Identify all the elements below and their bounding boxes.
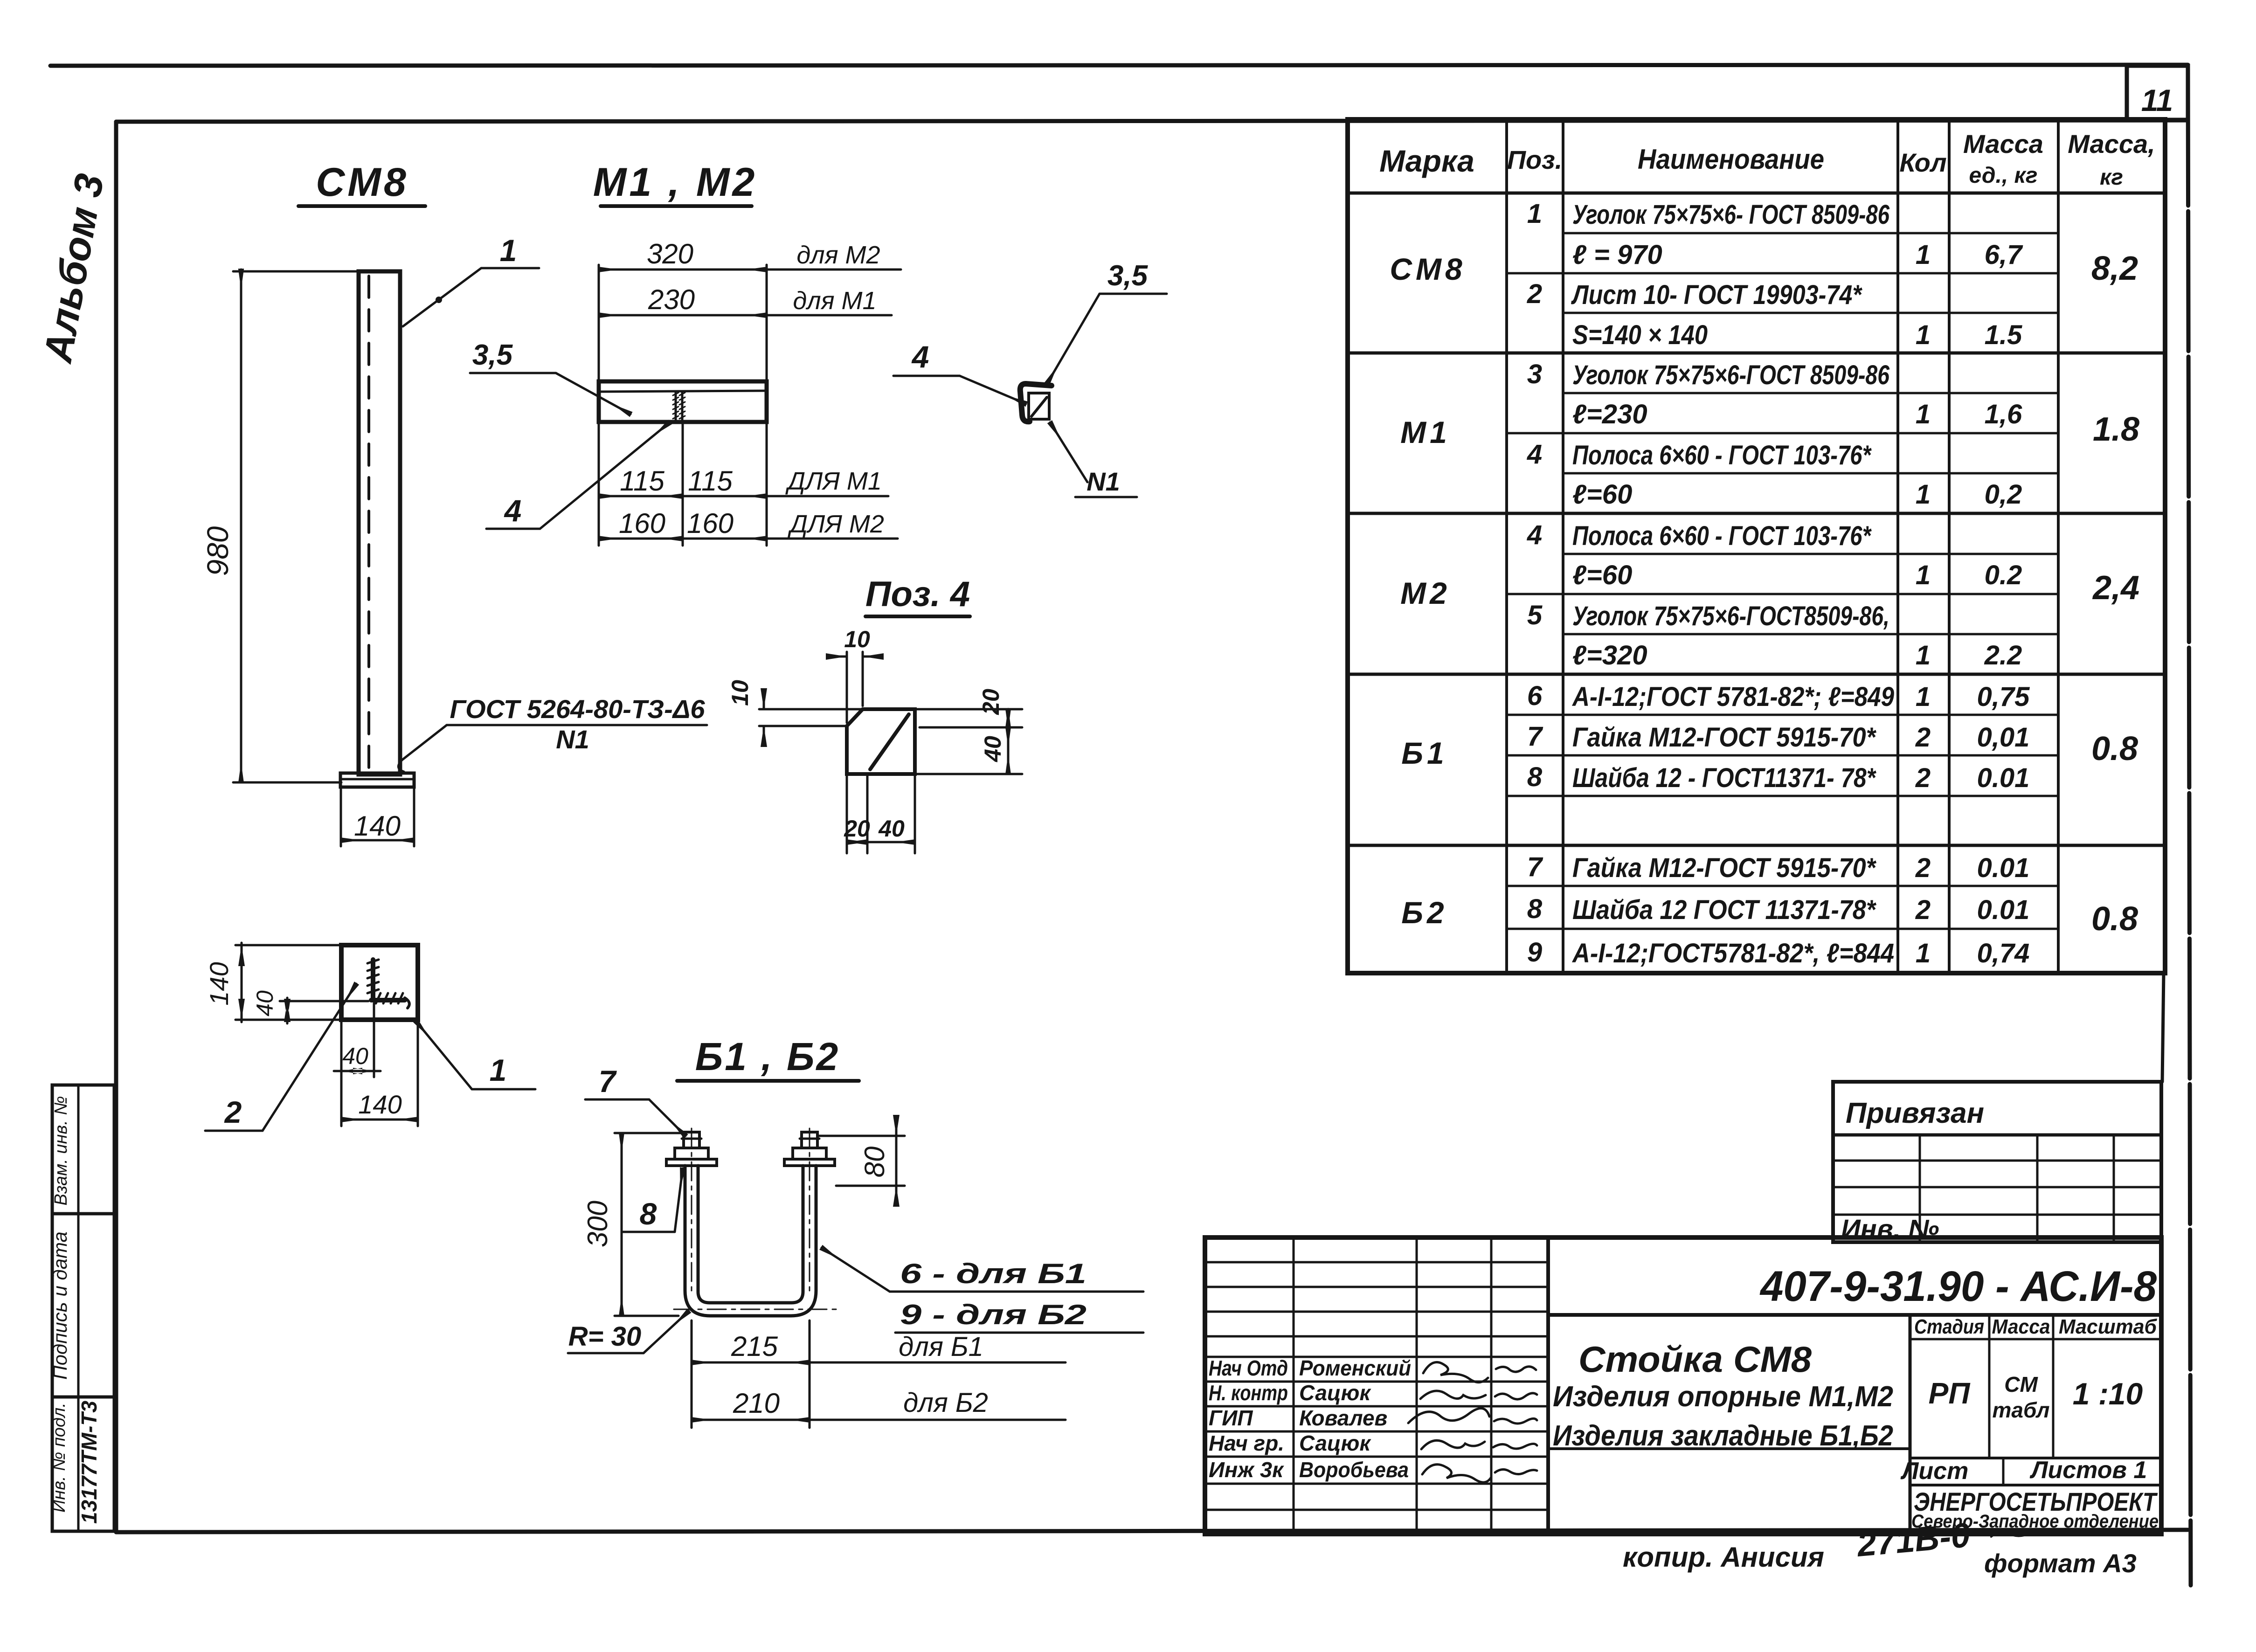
svg-text:1: 1 bbox=[1527, 199, 1542, 229]
svg-text:20: 20 bbox=[978, 689, 1004, 715]
svg-text:6,7: 6,7 bbox=[1985, 240, 2023, 270]
svg-text:2: 2 bbox=[1527, 279, 1542, 309]
svg-text:Стадия: Стадия bbox=[1914, 1315, 1984, 1338]
u-bottom centerline bbox=[674, 1309, 839, 1310]
svg-text:2: 2 bbox=[1915, 895, 1931, 925]
svg-text:4: 4 bbox=[1527, 520, 1542, 550]
title CM8 underline bbox=[298, 204, 425, 208]
label 3,5 detail leader bbox=[1047, 294, 1100, 383]
svg-text:кг: кг bbox=[2100, 165, 2123, 190]
row 4 s140 bbox=[1572, 320, 2022, 350]
sig nach otd signature bbox=[1423, 1362, 1488, 1382]
svg-text:Масса: Масса bbox=[1992, 1315, 2050, 1338]
leader label 1 dot bbox=[436, 297, 442, 303]
svg-text:3: 3 bbox=[1527, 359, 1542, 389]
svg-text:Стойка СМ8: Стойка СМ8 bbox=[1578, 1339, 1812, 1380]
drawing frame top border bbox=[116, 120, 2188, 122]
svg-text:5: 5 bbox=[1527, 600, 1543, 630]
plate angle outline bbox=[599, 381, 767, 422]
label N1 underline bbox=[1075, 496, 1137, 498]
svg-text:СМ: СМ bbox=[2004, 1372, 2038, 1396]
link line table to privyazan bbox=[2162, 973, 2164, 1082]
margin stamp divider 1 bbox=[52, 1212, 114, 1216]
svg-text:1 :10: 1 :10 bbox=[2073, 1376, 2143, 1411]
svg-text:0.8: 0.8 bbox=[2091, 730, 2138, 767]
svg-text:271В-0: 271В-0 bbox=[1855, 1515, 1972, 1564]
sig n kontr signature bbox=[1420, 1391, 1486, 1399]
svg-text:для М1: для М1 bbox=[793, 287, 876, 315]
sig gip date bbox=[1494, 1418, 1537, 1424]
dim 320 tail dlya M2 bbox=[767, 269, 901, 271]
weld note underline bbox=[447, 724, 707, 726]
title B1 B2 underline bbox=[677, 1079, 859, 1083]
signature table column lines bbox=[1294, 1237, 1491, 1534]
svg-text:Нач Отд: Нач Отд bbox=[1209, 1356, 1288, 1380]
svg-text:ед., кг: ед., кг bbox=[1969, 163, 2038, 188]
title block outer box bbox=[1205, 1237, 2161, 1534]
dim 215 tail bbox=[810, 1362, 1066, 1364]
privyazan column lines bbox=[1920, 1135, 2114, 1242]
base plate bbox=[340, 773, 414, 787]
note 9 underline bbox=[895, 1332, 1143, 1334]
svg-text:ℓ=320: ℓ=320 bbox=[1572, 640, 1647, 670]
svg-text:1: 1 bbox=[1916, 399, 1931, 429]
row 10 l60 bbox=[1572, 560, 2022, 590]
dim 115 tail dlya M1 bbox=[767, 495, 888, 498]
svg-text:ГИП: ГИП bbox=[1209, 1406, 1253, 1430]
dim 140 extension right bbox=[413, 789, 415, 846]
svg-text:М1 , М2: М1 , М2 bbox=[593, 160, 758, 205]
dim 320 line bbox=[599, 269, 767, 271]
svg-text:СМ8: СМ8 bbox=[316, 160, 409, 205]
sig row nach otd bbox=[1209, 1356, 1411, 1380]
dim 10 left arrows bbox=[761, 688, 767, 747]
svg-text:Наименование: Наименование bbox=[1638, 144, 1824, 175]
row 5 ugolok bbox=[1527, 359, 1890, 390]
dim 20 right line bbox=[1007, 709, 1010, 727]
svg-text:0.01: 0.01 bbox=[1977, 763, 2030, 793]
svg-text:Кол: Кол bbox=[1899, 148, 1946, 177]
svg-text:Б2: Б2 bbox=[1401, 895, 1447, 930]
dim 10 top line bbox=[833, 656, 877, 658]
left bolt nut bbox=[675, 1148, 708, 1159]
dim 160 160 line bbox=[599, 538, 683, 540]
plan label 2 leader bbox=[263, 984, 356, 1131]
svg-text:табл: табл bbox=[1993, 1398, 2050, 1422]
svg-text:20: 20 bbox=[844, 816, 870, 842]
sig n kontr date bbox=[1495, 1393, 1537, 1399]
row 15 shaiba bbox=[1527, 762, 2030, 793]
plan dim 140 left extensions bbox=[235, 945, 341, 1020]
signature table right border bbox=[1546, 1237, 1550, 1534]
svg-text:0,01: 0,01 bbox=[1977, 722, 2030, 753]
row 19 a-i-12 bbox=[1527, 937, 2030, 968]
svg-text:4: 4 bbox=[1527, 439, 1542, 470]
sig inzh signature bbox=[1422, 1465, 1491, 1482]
svg-text:2: 2 bbox=[1915, 853, 1931, 883]
dim 300 extension bottom bbox=[615, 1315, 678, 1317]
dim 320 extension left bbox=[598, 265, 600, 381]
svg-text:3,5: 3,5 bbox=[472, 339, 513, 371]
signature table row lines bbox=[1205, 1262, 1548, 1510]
svg-text:Полоса 6×60 - ГОСТ 103-76*: Полоса 6×60 - ГОСТ 103-76* bbox=[1572, 521, 1872, 551]
svg-text:980: 980 bbox=[201, 526, 235, 576]
svg-text:215: 215 bbox=[731, 1331, 778, 1362]
right bolt tip bbox=[802, 1132, 817, 1148]
svg-text:2: 2 bbox=[1915, 722, 1931, 753]
label 3,5 detail underline bbox=[1100, 293, 1167, 295]
sig nach gr signature bbox=[1421, 1440, 1485, 1449]
svg-text:13177ТМ-Т3: 13177ТМ-Т3 bbox=[77, 1401, 101, 1524]
svg-text:РП: РП bbox=[1929, 1376, 1971, 1410]
dim 80 extension bottom bbox=[836, 1185, 905, 1187]
plan label 2 underline bbox=[205, 1130, 263, 1132]
svg-text:40: 40 bbox=[980, 736, 1006, 762]
label R30 leader bbox=[644, 1311, 689, 1353]
right bolt washer bbox=[784, 1159, 835, 1166]
doc number box bottom line bbox=[1548, 1313, 2161, 1317]
sig inzh date bbox=[1495, 1469, 1537, 1474]
lower extension right bbox=[766, 423, 768, 546]
svg-text:10: 10 bbox=[727, 680, 753, 706]
svg-text:1: 1 bbox=[1916, 479, 1931, 510]
dim 115 115 line b bbox=[683, 495, 767, 498]
dim 80 arrows bbox=[893, 1115, 900, 1207]
row 13 a-i-12 bbox=[1527, 681, 2030, 712]
polosa end square bbox=[1029, 393, 1049, 419]
dim 210 tail bbox=[810, 1419, 1066, 1421]
sig nach gr date bbox=[1493, 1444, 1537, 1449]
list row bottom line bbox=[1910, 1484, 2161, 1486]
svg-text:Взам. инв. №: Взам. инв. № bbox=[51, 1096, 71, 1205]
svg-text:Альбом 3: Альбом 3 bbox=[35, 171, 112, 366]
title poz 4 underline bbox=[865, 615, 970, 618]
svg-text:115: 115 bbox=[688, 465, 733, 497]
svg-text:8: 8 bbox=[640, 1196, 657, 1231]
svg-text:Шайба 12 ГОСТ 11371-78*: Шайба 12 ГОСТ 11371-78* bbox=[1572, 895, 1876, 925]
plan label 1 underline bbox=[472, 1088, 535, 1091]
svg-text:Инж 3к: Инж 3к bbox=[1209, 1458, 1285, 1482]
svg-text:140: 140 bbox=[354, 810, 401, 842]
table section line CM8/M1 bbox=[1348, 352, 2165, 355]
page number box bbox=[2127, 66, 2188, 120]
sig nach otd date bbox=[1496, 1367, 1536, 1372]
row 7 polosa bbox=[1527, 439, 1872, 470]
column angle outline bbox=[359, 271, 400, 774]
svg-text:Изделия опорные М1,М2: Изделия опорные М1,М2 bbox=[1553, 1381, 1893, 1413]
poz4 plate outline bbox=[847, 709, 915, 774]
polosa diagonal bbox=[1031, 397, 1047, 416]
svg-text:8,2: 8,2 bbox=[2091, 250, 2138, 287]
bottom extensions bbox=[847, 774, 915, 853]
svg-text:40: 40 bbox=[342, 1043, 368, 1069]
poz4 diagonal bbox=[870, 714, 909, 769]
table section line M1/M2 bbox=[1348, 512, 2165, 515]
plan dim 140 left line bbox=[241, 943, 243, 1022]
svg-text:ДЛЯ М1: ДЛЯ М1 bbox=[785, 467, 882, 495]
dim 40 bottom line bbox=[867, 841, 915, 843]
plan angle vertical leg bbox=[371, 960, 375, 1000]
svg-text:Гайка М12-ГОСТ 5915-70*: Гайка М12-ГОСТ 5915-70* bbox=[1572, 722, 1876, 753]
svg-text:1: 1 bbox=[490, 1053, 507, 1087]
list row top line bbox=[1548, 1449, 2161, 1458]
row 2 l970 bbox=[1572, 240, 2023, 270]
svg-text:Уголок 75×75×6-ГОСТ8509-86,: Уголок 75×75×6-ГОСТ8509-86, bbox=[1572, 601, 1889, 631]
list row divider bbox=[2002, 1458, 2005, 1485]
leader label 1 bbox=[403, 268, 539, 326]
plan dim 40 bottom extension bbox=[341, 1003, 374, 1126]
sig gip signature bbox=[1408, 1408, 1489, 1423]
label R30 underline bbox=[568, 1352, 644, 1355]
svg-text:ℓ=60: ℓ=60 bbox=[1572, 479, 1632, 510]
dim 115 115 line bbox=[599, 495, 683, 498]
svg-text:Лист: Лист bbox=[1900, 1458, 1969, 1485]
svg-text:Уголок 75×75×6- ГОСТ 8509-86: Уголок 75×75×6- ГОСТ 8509-86 bbox=[1572, 200, 1890, 230]
svg-text:для М2: для М2 bbox=[796, 241, 880, 269]
left bolt centerline bbox=[691, 1128, 692, 1296]
svg-text:2: 2 bbox=[1915, 763, 1931, 793]
svg-text:Масса: Масса bbox=[1963, 129, 2043, 159]
plan angle horizontal leg bbox=[371, 998, 405, 1002]
dim 140 line bbox=[341, 839, 414, 842]
svg-text:6 - для Б1: 6 - для Б1 bbox=[900, 1258, 1086, 1289]
svg-text:40: 40 bbox=[252, 990, 278, 1016]
svg-text:0.01: 0.01 bbox=[1977, 895, 2030, 925]
svg-text:Б1: Б1 bbox=[1401, 736, 1447, 770]
right extensions bbox=[915, 709, 1022, 774]
svg-text:А-I-12;ГОСТ5781-82*, ℓ=844: А-I-12;ГОСТ5781-82*, ℓ=844 bbox=[1571, 938, 1894, 968]
svg-text:1,6: 1,6 bbox=[1985, 399, 2022, 429]
plan angle end curl bbox=[405, 998, 409, 1008]
svg-text:Инв. № подл.: Инв. № подл. bbox=[49, 1403, 69, 1513]
svg-text:407-9-31.90 - АС.И-8: 407-9-31.90 - АС.И-8 bbox=[1759, 1263, 2157, 1310]
svg-text:300: 300 bbox=[582, 1201, 613, 1247]
svg-text:2.2: 2.2 bbox=[1984, 640, 2022, 670]
table section line M2/B1 bbox=[1348, 673, 2165, 676]
label 4 underline bbox=[486, 528, 540, 530]
margin stamp divider 2 bbox=[52, 1396, 114, 1399]
svg-text:R= 30: R= 30 bbox=[568, 1321, 641, 1352]
note 6 leader bbox=[822, 1248, 890, 1292]
margin stamp inner divider bbox=[77, 1085, 80, 1531]
svg-text:7: 7 bbox=[1527, 852, 1543, 882]
svg-text:М1: М1 bbox=[1400, 415, 1451, 449]
label 8 underline bbox=[623, 1231, 675, 1233]
svg-text:0.2: 0.2 bbox=[1985, 560, 2022, 590]
svg-text:1: 1 bbox=[1916, 240, 1931, 270]
svg-text:0.8: 0.8 bbox=[2091, 900, 2138, 938]
plan dim 40 bottom arrows bbox=[341, 1068, 374, 1074]
label 8 leader bbox=[675, 1168, 683, 1232]
svg-text:1: 1 bbox=[1916, 682, 1931, 712]
table header bottom line bbox=[1348, 192, 2165, 195]
left bolt tip bbox=[684, 1132, 699, 1148]
row 17 gaika bbox=[1527, 852, 2030, 883]
note 6 underline bbox=[890, 1291, 1143, 1293]
dim 980 extension top bbox=[233, 270, 359, 273]
dim 215 extensions bbox=[692, 1320, 810, 1428]
label 4 detail leader bbox=[960, 376, 1026, 404]
svg-text:7: 7 bbox=[1527, 721, 1543, 752]
svg-text:Подпись и дата: Подпись и дата bbox=[49, 1231, 71, 1380]
dim 20 bottom line bbox=[847, 841, 867, 843]
svg-text:Н. контр: Н. контр bbox=[1209, 1381, 1288, 1405]
svg-text:1: 1 bbox=[500, 233, 517, 268]
dim 215 line bbox=[692, 1362, 810, 1364]
right bolt nut bbox=[793, 1148, 826, 1159]
dim 80 extension top bbox=[819, 1135, 905, 1137]
row 18 shaiba bbox=[1527, 894, 2030, 925]
drawing frame bottom border bbox=[116, 1530, 2188, 1532]
plan angle weld ticks bbox=[367, 960, 403, 1003]
svg-text:Сацюк: Сацюк bbox=[1299, 1381, 1371, 1405]
dim 980 line bbox=[240, 270, 242, 782]
svg-text:N1: N1 bbox=[556, 725, 589, 754]
svg-text:ℓ = 970: ℓ = 970 bbox=[1572, 240, 1662, 270]
row 3 list10 bbox=[1527, 279, 1862, 310]
svg-text:Б1 , Б2: Б1 , Б2 bbox=[695, 1035, 840, 1078]
svg-text:Масса,: Масса, bbox=[2068, 129, 2155, 159]
svg-text:Воробьева: Воробьева bbox=[1299, 1458, 1409, 1482]
svg-text:0,75: 0,75 bbox=[1977, 682, 2030, 712]
plan dim 40 left extension bbox=[280, 1000, 368, 1002]
svg-text:11: 11 bbox=[2141, 83, 2173, 118]
svg-text:160: 160 bbox=[687, 508, 734, 539]
dim 320 extension right bbox=[766, 265, 768, 381]
sig row inzh bbox=[1209, 1458, 1409, 1482]
right bolt tip thread bbox=[800, 1138, 819, 1140]
svg-text:6: 6 bbox=[1527, 681, 1543, 711]
row 14 gaika bbox=[1527, 721, 2030, 753]
left bolt washer bbox=[666, 1159, 717, 1166]
dim 10 top extensions bbox=[847, 652, 863, 723]
svg-text:ℓ=60: ℓ=60 bbox=[1572, 560, 1632, 590]
privyazan row lines bbox=[1833, 1161, 2161, 1215]
stamp grid stadia massa masshtab dividers bbox=[1989, 1315, 2053, 1458]
plan dim 40 left arrows bbox=[284, 999, 291, 1022]
svg-text:формат А3: формат А3 bbox=[1984, 1548, 2137, 1578]
plan plate square bbox=[341, 945, 418, 1020]
svg-text:ДЛЯ М2: ДЛЯ М2 bbox=[788, 510, 884, 538]
row 6 l230 bbox=[1572, 399, 2022, 429]
svg-text:Привязан: Привязан bbox=[1846, 1097, 1984, 1129]
sig row nach gr bbox=[1209, 1431, 1371, 1455]
svg-text:9 - для Б2: 9 - для Б2 bbox=[900, 1299, 1086, 1330]
svg-text:Изделия закладные Б1,Б2: Изделия закладные Б1,Б2 bbox=[1553, 1420, 1893, 1452]
svg-text:А-I-12;ГОСТ 5781-82*; ℓ=849: А-I-12;ГОСТ 5781-82*; ℓ=849 bbox=[1571, 682, 1894, 712]
row 9 polosa bbox=[1527, 520, 1872, 551]
svg-text:4: 4 bbox=[504, 493, 522, 528]
u-bolt outer contour bbox=[685, 1166, 816, 1316]
svg-text:Роменский: Роменский bbox=[1299, 1356, 1411, 1380]
base plate inner line bbox=[340, 778, 414, 781]
svg-text:10: 10 bbox=[844, 626, 870, 652]
svg-text:Лист 10- ГОСТ 19903-74*: Лист 10- ГОСТ 19903-74* bbox=[1571, 280, 1863, 310]
dim 10 top arrows bbox=[826, 653, 884, 660]
left bolt tip thread bbox=[682, 1138, 701, 1140]
svg-text:Листов 1: Листов 1 bbox=[2029, 1457, 2147, 1484]
svg-text:Шайба 12 - ГОСТ11371- 78*: Шайба 12 - ГОСТ11371- 78* bbox=[1572, 763, 1876, 793]
dim 80 line bbox=[895, 1118, 898, 1203]
table section line B1/B2 bbox=[1348, 844, 2165, 847]
plan dim 140 left arrows bbox=[238, 945, 245, 1020]
svg-text:1.8: 1.8 bbox=[2093, 411, 2139, 448]
lower extension left bbox=[598, 423, 600, 546]
svg-text:для Б2: для Б2 bbox=[903, 1388, 988, 1418]
svg-text:7: 7 bbox=[599, 1064, 617, 1099]
svg-text:Гайка М12-ГОСТ 5915-70*: Гайка М12-ГОСТ 5915-70* bbox=[1572, 853, 1876, 883]
svg-text:210: 210 bbox=[733, 1388, 780, 1419]
svg-text:8: 8 bbox=[1527, 894, 1543, 924]
dim 980 extension bottom bbox=[233, 781, 341, 784]
label 7 underline bbox=[585, 1099, 649, 1101]
svg-text:160: 160 bbox=[619, 508, 665, 539]
weld note leader bbox=[398, 725, 447, 772]
svg-text:N1: N1 bbox=[1086, 467, 1120, 496]
plan label 1 leader bbox=[416, 1021, 472, 1089]
svg-text:2: 2 bbox=[224, 1095, 242, 1129]
svg-text:0,74: 0,74 bbox=[1977, 938, 2030, 968]
angle profile vertical leg bbox=[1020, 384, 1052, 422]
table outer border bbox=[1348, 119, 2165, 973]
svg-text:4: 4 bbox=[911, 339, 929, 374]
plan dim 40 bottom line bbox=[334, 1070, 381, 1072]
plate weld hatch bbox=[673, 393, 685, 419]
drawing frame left border bbox=[114, 122, 118, 1532]
svg-text:Ковалев: Ковалев bbox=[1299, 1406, 1387, 1430]
right bolt centerline bbox=[809, 1128, 810, 1296]
svg-text:140: 140 bbox=[204, 962, 234, 1005]
svg-text:Сацюк: Сацюк bbox=[1299, 1431, 1371, 1455]
dim 300 extension top bbox=[615, 1132, 682, 1134]
svg-text:Полоса 6×60 - ГОСТ 103-76*: Полоса 6×60 - ГОСТ 103-76* bbox=[1572, 440, 1872, 470]
drawing frame right border bbox=[2188, 66, 2191, 1585]
label 3,5 underline bbox=[470, 372, 556, 374]
svg-text:для Б1: для Б1 bbox=[899, 1332, 983, 1362]
svg-text:Масштаб: Масштаб bbox=[2059, 1315, 2158, 1338]
plan dim 40 left line bbox=[286, 998, 289, 1023]
privyazan header line bbox=[1833, 1134, 2161, 1137]
svg-text:230: 230 bbox=[648, 284, 695, 315]
dim 40 right line bbox=[1007, 727, 1010, 774]
dim 10 left line bbox=[763, 695, 765, 740]
svg-text:9: 9 bbox=[1527, 937, 1542, 968]
svg-text:СМ8: СМ8 bbox=[1390, 252, 1466, 286]
svg-text:0,2: 0,2 bbox=[1985, 479, 2022, 510]
dim 140 extension left bbox=[340, 789, 342, 846]
svg-text:1: 1 bbox=[1916, 938, 1931, 968]
privyazan outer box bbox=[1833, 1082, 2161, 1242]
label 4 leader bbox=[540, 422, 670, 529]
dim 10 left extensions bbox=[759, 709, 863, 726]
svg-text:1.5: 1.5 bbox=[1985, 320, 2022, 350]
svg-text:ГОСТ 5264-80-ТЗ-Δ6: ГОСТ 5264-80-ТЗ-Δ6 bbox=[450, 694, 705, 724]
svg-text:0.01: 0.01 bbox=[1977, 853, 2030, 883]
svg-text:1: 1 bbox=[1916, 320, 1931, 350]
row 1 ugolok bbox=[1527, 199, 1890, 230]
dim 210 line bbox=[692, 1419, 810, 1421]
margin stamp box bbox=[52, 1085, 114, 1531]
svg-text:Марка: Марка bbox=[1379, 144, 1474, 178]
svg-text:М2: М2 bbox=[1400, 576, 1451, 610]
svg-text:140: 140 bbox=[358, 1090, 401, 1119]
column hidden edge dashed bbox=[367, 276, 370, 772]
svg-text:Нач гр.: Нач гр. bbox=[1209, 1431, 1284, 1455]
dim 160 tail dlya M2 bbox=[767, 538, 898, 540]
label 7 leader bbox=[649, 1099, 685, 1136]
dim 230 line bbox=[599, 314, 767, 317]
sheet top edge line bbox=[50, 65, 2188, 66]
